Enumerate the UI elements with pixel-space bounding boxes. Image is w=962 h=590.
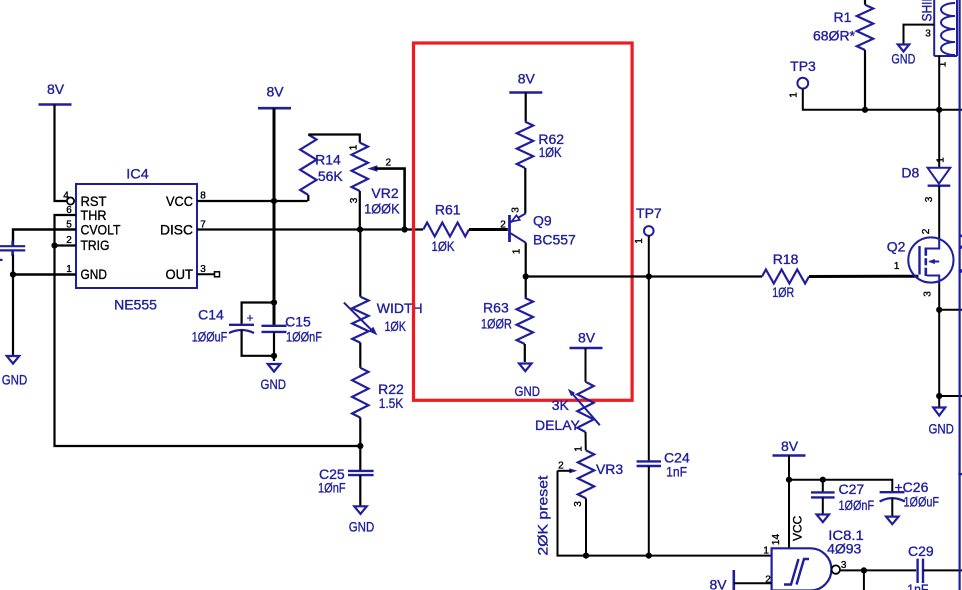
svg-text:1ØØR: 1ØØR	[481, 315, 512, 331]
ground (connector shield)	[898, 45, 909, 52]
wire cap to GND rail	[12, 255, 14, 356]
node junction Q2 source	[936, 307, 942, 313]
ground (C14/C15)	[268, 364, 281, 372]
node junction TP7/output	[646, 273, 652, 279]
resistor R62 10K	[517, 122, 533, 168]
wire THR to left rail	[55, 215, 361, 446]
svg-text:1: 1	[763, 546, 769, 557]
svg-text:1ØØuF: 1ØØuF	[192, 329, 228, 345]
wire VR2 bottom to DISC line	[359, 191, 361, 230]
svg-text:1: 1	[788, 92, 799, 98]
IC4 RST inversion bubble	[67, 197, 74, 204]
svg-text:1: 1	[511, 248, 522, 254]
wire junction to ground	[938, 396, 940, 407]
svg-text:68ØR*: 68ØR*	[813, 28, 856, 44]
svg-text:2: 2	[558, 460, 564, 471]
svg-text:+: +	[246, 311, 253, 325]
wire DELAY to VR3	[585, 432, 587, 450]
svg-text:8V: 8V	[709, 577, 727, 590]
svg-text:C14: C14	[198, 307, 224, 323]
wire Q2 source down	[938, 282, 940, 396]
node junction THR/TRIG	[51, 242, 57, 248]
potentiometer WIDTH 10K	[352, 297, 368, 343]
svg-text:SHIE: SHIE	[919, 0, 935, 22]
wire IC8.1 output pin 3	[840, 569, 916, 571]
wire CVOLT to cap	[13, 230, 76, 247]
svg-text:1ØnF: 1ØnF	[318, 479, 346, 495]
svg-text:VCC: VCC	[166, 193, 193, 209]
svg-text:C15: C15	[285, 314, 311, 330]
wire R63 to ground	[524, 344, 526, 362]
wire R61 to Q9 base	[469, 228, 508, 231]
svg-text:3: 3	[924, 196, 935, 202]
ground (C25)	[354, 506, 367, 514]
capacitor C29 1nF	[916, 559, 918, 583]
svg-text:8V: 8V	[781, 438, 799, 454]
node junction cap/GND	[10, 271, 16, 277]
svg-text:1: 1	[634, 238, 645, 244]
svg-text:1nF: 1nF	[907, 581, 928, 590]
node junction C14/C15 bottom	[271, 353, 277, 359]
svg-text:DELAY: DELAY	[535, 417, 581, 433]
node junction pin3/C29	[861, 567, 867, 573]
OUT open terminal square	[215, 272, 220, 277]
node junction VR3 bottom	[585, 498, 587, 555]
svg-text:3K: 3K	[552, 397, 570, 413]
svg-text:3: 3	[841, 560, 847, 571]
svg-text:56K: 56K	[318, 168, 344, 184]
svg-text:R63: R63	[483, 299, 509, 315]
node junction VR2/WIDTH on DISC	[357, 226, 363, 232]
svg-text:1.5K: 1.5K	[379, 395, 404, 411]
capacitor C14 100uF (polarized)	[242, 303, 274, 324]
transistor Q9 BC557 (PNP)	[508, 215, 511, 242]
wire junction down	[863, 570, 865, 590]
svg-text:VR3: VR3	[596, 461, 623, 477]
svg-text:8V: 8V	[578, 330, 596, 346]
IC8.1 output bubble	[832, 565, 840, 573]
wire D8 to Q2	[938, 186, 940, 238]
capacitor C24 1nF	[637, 460, 661, 462]
svg-text:WIDTH: WIDTH	[377, 300, 423, 316]
svg-text:TRIG: TRIG	[81, 237, 110, 253]
svg-text:3: 3	[922, 291, 933, 297]
wire Q9 collector output line	[526, 275, 762, 277]
svg-text:VR2: VR2	[371, 185, 398, 201]
node junction VCC rail IC8	[786, 477, 792, 483]
ground (R63)	[519, 364, 532, 372]
svg-text:R14: R14	[315, 151, 341, 167]
capacitor C15 100nF	[262, 325, 287, 327]
ground (C27)	[817, 515, 830, 523]
svg-text:DISC: DISC	[160, 221, 193, 237]
svg-text:4Ø93: 4Ø93	[827, 541, 861, 557]
svg-text:GND: GND	[928, 421, 954, 437]
node junction GND right	[936, 393, 942, 399]
wire to right edge (lower)	[939, 395, 962, 397]
capacitor (left edge, cut off)	[0, 245, 25, 247]
svg-text:3: 3	[349, 197, 360, 203]
svg-text:8V: 8V	[47, 81, 65, 97]
wire 8V to R62	[525, 93, 527, 122]
wire VCC rail to C26	[789, 480, 892, 492]
svg-text:BC557: BC557	[533, 232, 576, 248]
resistor R61 10K	[423, 223, 469, 237]
svg-text:2ØK preset: 2ØK preset	[535, 475, 551, 555]
node junction C24 bottom	[646, 553, 652, 559]
svg-text:Q2: Q2	[887, 238, 906, 254]
svg-text:2: 2	[386, 157, 392, 168]
svg-text:8V: 8V	[266, 83, 284, 99]
svg-text:1ØK: 1ØK	[432, 238, 456, 254]
svg-text:1ØØnF: 1ØØnF	[286, 329, 322, 345]
ground (C26)	[886, 517, 899, 525]
wire connector pin 1 down	[938, 56, 940, 168]
capacitor C27 100nF	[822, 480, 824, 492]
resistor R1 680R*	[864, 0, 866, 5]
wire source to right edge	[939, 309, 962, 311]
ground (right)	[933, 408, 945, 416]
svg-text:1ØK: 1ØK	[539, 144, 563, 160]
wire OUT pin 3 stub	[197, 273, 215, 275]
resistor R14 56K	[307, 195, 309, 201]
potentiometer 3K DELAY	[577, 382, 593, 432]
highlight red box	[414, 43, 633, 400]
svg-text:3: 3	[573, 501, 584, 507]
wire 8V to IC8 pin 14	[788, 456, 790, 549]
svg-text:GND: GND	[2, 372, 28, 388]
svg-text:C27: C27	[839, 481, 865, 497]
svg-text:GND: GND	[81, 266, 108, 282]
ground (bottom left)	[7, 356, 20, 364]
svg-text:8V: 8V	[518, 71, 536, 87]
svg-text:Q9: Q9	[533, 213, 552, 229]
resistor R22 1.5K	[352, 368, 368, 418]
resistor R18 10R	[762, 270, 809, 284]
capacitor C26 100uF (polarized)	[880, 491, 905, 493]
wire 8V to DELAY pot	[585, 348, 587, 382]
gate IC8.1 4093 (NAND)	[772, 548, 832, 590]
svg-text:TP3: TP3	[790, 58, 816, 74]
wire DISC junction down to WIDTH pot	[359, 230, 361, 297]
svg-text:2: 2	[500, 219, 506, 230]
connector J (SHIELD)	[933, 0, 935, 56]
wire DISC pin 7 line	[197, 228, 423, 230]
svg-text:2: 2	[921, 228, 932, 234]
node junction C14 branch	[271, 299, 277, 305]
svg-text:R1: R1	[834, 9, 852, 25]
edge stubs	[959, 235, 962, 238]
svg-text:D8: D8	[901, 164, 919, 180]
capacitor C25 10nF	[348, 470, 374, 472]
node junction R22/C25/feedback	[357, 443, 363, 449]
svg-text:1ØØuF: 1ØØuF	[904, 494, 940, 510]
svg-text:IC4: IC4	[126, 166, 149, 182]
svg-text:1ØØK: 1ØØK	[364, 200, 400, 216]
IC8.1 schmitt symbol	[784, 559, 799, 585]
VR3 wiper arrow	[569, 468, 577, 473]
wire WIDTH to R22	[359, 343, 361, 368]
svg-text:TP7: TP7	[636, 205, 662, 221]
svg-text:1nF: 1nF	[666, 464, 687, 480]
svg-text:R18: R18	[773, 251, 799, 267]
svg-text:1: 1	[894, 261, 900, 272]
wire TP7 down through C24	[648, 236, 650, 461]
wire 8V to pin 2	[734, 582, 772, 584]
svg-text:VCC: VCC	[791, 515, 805, 541]
wire R22 to C25 junction	[359, 418, 361, 471]
svg-text:1ØØnF: 1ØØnF	[839, 497, 875, 513]
IC4 NE555 body	[76, 184, 197, 288]
wire TRIG	[55, 244, 77, 246]
svg-text:GND: GND	[261, 376, 287, 392]
svg-text:NE555: NE555	[114, 297, 157, 313]
svg-text:3: 3	[925, 29, 931, 40]
svg-text:CVOLT: CVOLT	[81, 221, 121, 237]
svg-text:C29: C29	[908, 543, 934, 559]
svg-text:GND: GND	[515, 383, 541, 399]
svg-text:3: 3	[511, 207, 522, 213]
wire TP3 to rail	[803, 89, 962, 110]
wire connector pin 3 to GND	[904, 25, 935, 45]
svg-text:OUT: OUT	[166, 266, 194, 282]
wire GND pin of IC4	[13, 273, 76, 275]
potentiometer VR2 100K	[352, 143, 368, 191]
svg-text:1: 1	[936, 157, 947, 163]
svg-text:1: 1	[349, 144, 360, 150]
node junction VR2 wiper on DISC	[402, 226, 408, 232]
svg-text:1ØR: 1ØR	[772, 284, 794, 300]
wire 8V to RST	[55, 105, 67, 202]
svg-text:GND: GND	[349, 519, 375, 535]
node junction C27	[820, 477, 826, 483]
wire 8V rail down to C15	[273, 108, 276, 325]
sheet border (right)	[958, 0, 960, 590]
wire R14 top to VR2 top	[308, 135, 360, 143]
wire VR3 wiper to bus	[558, 471, 772, 556]
wire R62 to Q9 emitter	[524, 168, 526, 214]
wire Q9 collector down	[525, 243, 527, 298]
svg-text:GND: GND	[891, 51, 915, 67]
VR2 wiper arrow	[367, 165, 377, 172]
potentiometer VR3 20K preset	[578, 450, 594, 498]
node junction Q9 collector	[523, 273, 529, 279]
svg-text:1: 1	[574, 446, 585, 452]
svg-text:8: 8	[200, 190, 206, 201]
resistor R63 100R	[517, 298, 533, 344]
wire R18 to Q2 gate	[809, 275, 918, 278]
node junction main rail / connector	[936, 107, 942, 113]
node junction R1 bottom	[862, 107, 868, 113]
svg-text:1ØK: 1ØK	[384, 318, 406, 334]
wire VCC pin 8	[197, 200, 308, 202]
node junction VCC rail	[271, 198, 277, 204]
svg-text:14: 14	[771, 534, 782, 546]
svg-text:R61: R61	[435, 202, 461, 218]
svg-text:+C26: +C26	[895, 479, 929, 495]
